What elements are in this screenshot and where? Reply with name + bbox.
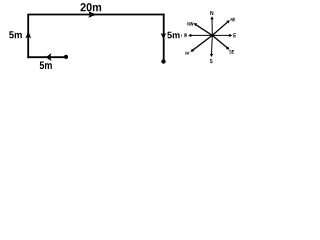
arrowhead east on top segment <box>88 11 96 18</box>
compass rose: SE arm <box>212 35 229 49</box>
compass label S <box>210 59 213 63</box>
compass label NE <box>231 18 235 21</box>
label 5m (right segment) <box>167 32 179 39</box>
wire: left vertical 5m segment (heading north) <box>27 15 29 59</box>
tick mark left of compass W label <box>180 34 183 37</box>
compass label N <box>210 11 213 15</box>
compass label E <box>233 33 236 37</box>
compass label SW <box>185 52 189 55</box>
compass rose: N arm <box>210 16 213 35</box>
node: start point dot <box>64 55 68 59</box>
wire: right vertical 5m segment (heading south) <box>163 14 165 60</box>
compass rose: E arm <box>212 34 232 37</box>
label 5m (left segment) <box>9 31 22 38</box>
arrowhead north on left segment <box>26 31 32 39</box>
compass label W <box>184 33 187 37</box>
compass label NW <box>187 22 193 26</box>
compass rose: S arm <box>210 35 213 57</box>
label 20m (top segment) <box>81 3 102 11</box>
wire: bottom horizontal 5m segment (start leg, heading west) <box>27 56 66 58</box>
compass rose: NW arm <box>194 23 213 35</box>
label 5m (bottom segment) <box>40 62 52 70</box>
wire: top horizontal 20m segment (heading east) <box>27 14 164 16</box>
compass label SE <box>229 50 234 54</box>
compass rose: W arm <box>188 34 212 37</box>
arrowhead south on right segment <box>161 33 167 39</box>
node: end point dot <box>161 59 165 63</box>
arrowhead west on bottom segment <box>46 53 52 61</box>
compass rose: NE arm <box>212 20 230 35</box>
compass rose: SW arm <box>191 35 213 52</box>
